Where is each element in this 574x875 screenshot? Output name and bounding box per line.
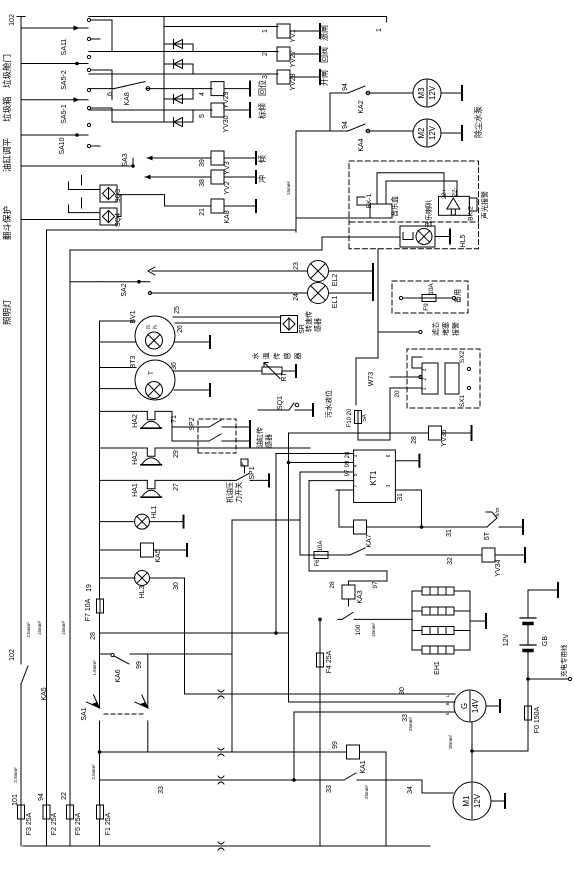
svg-text:BV1: BV1 [130,310,137,323]
svg-text:1: 1 [422,387,428,390]
svg-text:GB: GB [542,636,549,646]
lamp EL2 [308,261,329,282]
wire 100 feed to EH1 [411,619,413,621]
coil KA8 (21) [211,199,224,213]
fuse F3 25A on bus1 [18,805,25,819]
wire trunk 752 to left [99,751,346,753]
svg-text:W73: W73 [368,372,375,387]
svg-text:1.5mm²: 1.5mm² [92,660,97,676]
svg-text:转速传: 转速传 [304,311,313,332]
svg-text:YV35: YV35 [441,429,448,446]
wire 28 long line [100,632,289,634]
sx wires [390,376,422,378]
lamp EL1 [308,283,329,304]
switch 5T speed [483,526,487,528]
KT1 pin wires [309,480,354,482]
wire M1 to junction [471,751,473,782]
svg-text:F2 25A: F2 25A [51,812,58,835]
wire bus4 33/19/28 lamp rail [99,321,101,708]
svg-text:污水液位: 污水液位 [324,390,333,418]
sensor SR box [281,316,298,333]
diode D2 [164,64,193,74]
svg-text:27: 27 [173,483,180,491]
svg-text:15mm²: 15mm² [61,621,66,636]
svg-text:94: 94 [342,83,349,91]
svg-text:HL1: HL1 [151,505,158,518]
svg-text:HA2: HA2 [132,414,139,428]
contact KA1 wire 33 [340,779,344,781]
svg-text:KA2: KA2 [358,100,365,113]
wire 28 to KT1 pin1 [276,454,354,634]
svg-text:3: 3 [262,75,269,79]
svg-text:100: 100 [355,624,362,635]
svg-text:YV27: YV27 [290,50,297,67]
svg-text:开闸: 开闸 [320,70,329,86]
svg-text:3: 3 [386,484,392,487]
coil YV30 (5) [211,103,224,117]
svg-text:2.5mm²: 2.5mm² [91,764,96,780]
relay coil KA1 wire 99 [347,745,360,759]
generator pin wires [454,693,456,695]
svg-text:7: 7 [353,484,359,487]
svg-text:SA11: SA11 [61,39,68,56]
svg-text:SP1: SP1 [249,466,256,479]
svg-text:23: 23 [293,262,300,270]
svg-text:冲: 冲 [257,175,267,183]
svg-text:油缸传: 油缸传 [255,427,264,448]
wire bus1 102/101 (landscape top bus) [20,684,22,846]
svg-text:10A: 10A [428,283,435,295]
unit BK-1 music box [370,204,392,218]
svg-text:30: 30 [399,687,406,695]
ground BV1 lamp [174,341,210,343]
svg-text:12V: 12V [473,793,482,808]
svg-text:除尘水泵: 除尘水泵 [473,106,483,138]
svg-text:h: h [152,325,159,329]
alarm dashed box [349,161,479,249]
svg-text:4: 4 [353,464,359,467]
diode D3 [164,89,193,99]
wire 24 to lamp EL1 [150,292,307,294]
svg-text:涨闸: 涨闸 [319,25,329,41]
battery GB 12V [527,590,529,618]
wire line 5 from SA5-1 [89,109,212,111]
svg-text:BK-1: BK-1 [366,193,373,208]
svg-text:F4 25A: F4 25A [326,650,333,673]
wire 33 up to G [293,712,295,780]
svg-text:回位: 回位 [257,80,267,96]
svg-text:12V: 12V [503,633,510,646]
wire bus3 22 [69,250,71,846]
wire 33 branch [100,779,340,781]
svg-text:25mm²: 25mm² [408,717,413,732]
wire BV1 gauge feeds [100,320,136,322]
wire 99 vertical to YV35/KT1 [288,433,290,633]
gauge BV1 [135,316,175,356]
svg-text:SP2: SP2 [189,417,196,430]
svg-text:2: 2 [422,377,428,380]
motor M2 [413,119,441,147]
svg-text:29: 29 [173,450,180,458]
svg-text:KA8: KA8 [224,210,231,223]
fuse F5 25A on bus3 [67,805,74,819]
svg-text:99: 99 [345,460,351,467]
svg-text:RT: RT [281,372,288,382]
lamp box HL5 [400,226,435,247]
svg-text:14V: 14V [471,698,480,713]
svg-text:力开关: 力开关 [234,482,243,503]
wire 25/26 to speed sensor SR [173,316,281,318]
svg-text:F0 150A: F0 150A [534,706,541,733]
svg-text:39: 39 [199,159,206,167]
svg-text:G: G [460,703,469,709]
fuse F7 10A on bus4 [97,599,104,613]
svg-text:BK-2: BK-2 [468,206,475,221]
svg-text:滤芯: 滤芯 [431,322,440,336]
contact KA3 wire 100 [348,600,350,606]
svg-text:5T: 5T [484,531,491,540]
svg-text:照明灯: 照明灯 [2,299,12,325]
svg-text:KT1: KT1 [369,470,378,485]
svg-text:6: 6 [107,92,114,96]
svg-text:30: 30 [173,582,180,590]
wire 97 from F6 to KT1 pin3 [300,472,354,555]
wire HA2a horn feed 71 [100,410,148,412]
dashed connector box SX1/SX2 [407,349,480,408]
wire W73 terminal [392,376,418,378]
relay KT1 box [354,450,396,503]
svg-text:M3: M3 [417,87,426,99]
svg-text:34: 34 [407,786,414,794]
contact KA8 (wire 6) [89,88,110,90]
wire HA1 horn 27 [100,479,148,481]
wire bus2 94 [46,230,48,846]
svg-text:YV34: YV34 [495,559,502,576]
lamp HL1 [100,521,136,523]
svg-text:102: 102 [9,14,16,26]
svg-text:KA3: KA3 [357,590,364,603]
motor M3 [413,79,441,107]
wire bottom rail [23,845,430,847]
svg-text:33: 33 [158,786,165,794]
svg-text:28: 28 [90,632,97,640]
svg-text:HA1: HA1 [132,483,139,497]
switch SP1 oil pressure [241,459,248,466]
relay coil KA5 [100,549,141,551]
svg-text:26: 26 [177,325,184,333]
svg-text:SA5-1: SA5-1 [61,104,68,124]
generator G 14V [454,690,486,722]
wire HA2b horn 29 [100,447,148,449]
svg-text:31: 31 [397,493,404,501]
wire 99 drop to SA1 pole2 [147,654,149,708]
wire supply line 1 top right hook [386,17,388,23]
fuse F0 150A [527,679,529,751]
wire pole2 leg joins trunk [147,721,149,752]
svg-text:20: 20 [394,390,401,398]
wires inside alarm box [377,173,444,204]
svg-text:28: 28 [329,581,336,589]
svg-text:1: 1 [376,28,383,32]
svg-text:感: 感 [283,353,292,360]
svg-text:BT3: BT3 [130,355,137,368]
svg-text:38: 38 [199,179,206,187]
svg-text:31: 31 [446,529,453,537]
fuse F10 5A [355,411,362,424]
diode D1 [164,44,193,52]
svg-text:传: 传 [272,353,281,360]
diode D4 [164,110,193,122]
svg-text:感器: 感器 [313,318,322,332]
svg-text:SX2: SX2 [459,350,466,363]
svg-text:油缸调平: 油缸调平 [2,137,12,172]
svg-text:YV28: YV28 [290,73,297,90]
svg-text:EL2: EL2 [332,274,339,287]
svg-text:4: 4 [199,92,206,96]
svg-text:EL1: EL1 [332,296,339,309]
svg-text:12V: 12V [428,85,437,100]
svg-text:F6: F6 [315,559,321,567]
contact KA4 wire 94 [330,130,344,132]
wire from 97 net down to trunk [232,519,300,521]
svg-text:1: 1 [262,29,269,33]
wire 31 to 5T [367,526,483,528]
KT1 pin6 ground [395,460,419,462]
generator ground [486,705,500,707]
svg-text:器: 器 [294,353,302,360]
svg-text:声光报警: 声光报警 [480,191,489,219]
connector housing rects [422,363,438,394]
svg-text:YV2: YV2 [224,181,231,194]
svg-text:16mm²: 16mm² [371,623,376,638]
svg-text:6: 6 [386,454,392,457]
svg-text:5: 5 [199,114,206,118]
wire F4 25A branch [319,619,321,846]
relay coil KA7 [354,520,367,534]
fuse F6 10A wire 97 [300,554,313,556]
resistor RT water temp sensor [262,367,282,374]
svg-text:SA10: SA10 [59,137,66,154]
relay coil KA3 [342,585,355,599]
svg-text:5A: 5A [362,414,368,421]
horn HA2 [147,411,155,419]
svg-text:YV30: YV30 [223,115,230,132]
svg-text:22+: 22+ [442,188,448,199]
svg-text:M1: M1 [462,795,471,807]
wire sewage level SQ1 [258,409,285,411]
svg-text:回阀: 回阀 [320,47,329,63]
svg-text:HL3: HL3 [139,585,146,598]
wire line 3 [89,73,278,75]
lever symbol SQ3 [69,182,101,190]
svg-text:3: 3 [422,368,428,371]
wire filter alarm terminal [378,331,418,333]
svg-text:音乐盒: 音乐盒 [390,196,399,217]
svg-text:15mm²: 15mm² [286,181,291,196]
svg-text:感器: 感器 [264,434,273,448]
wire KA2/KA4 rail [329,93,331,131]
svg-text:机油压: 机油压 [225,482,234,503]
svg-text:25: 25 [174,306,181,314]
svg-text:F5 25A: F5 25A [75,812,82,835]
wire line to coil 1 [89,16,387,18]
svg-text:F9: F9 [423,303,430,311]
wire lamp rail down-left [99,281,101,283]
svg-text:12V: 12V [428,125,437,140]
fuse box F9 dashed [392,281,468,313]
svg-text:32: 32 [447,557,454,565]
wire line 2 [89,51,278,53]
fuse F2 25A on bus2 [43,805,50,819]
svg-text:垃圾舱门: 垃圾舱门 [2,54,12,88]
diode rail [163,17,165,123]
wire to YV35 coil 28 [289,432,429,434]
wire trunk down from lines to F10 [69,249,71,251]
svg-text:101: 101 [12,794,19,806]
svg-text:SA1: SA1 [81,707,88,720]
svg-text:KA8: KA8 [124,92,131,105]
svg-text:T: T [148,371,155,375]
svg-text:F3 25A: F3 25A [26,812,33,835]
svg-text:HL5: HL5 [460,234,467,247]
svg-text:KA7: KA7 [366,534,373,547]
svg-text:温: 温 [262,353,271,360]
svg-text:充电专用线: 充电专用线 [559,644,568,677]
wire 36 to RT [173,370,262,372]
wire 23 to lamp EL2 [152,270,307,272]
sensors SQ3/SQ4 and levers [100,185,117,202]
ground bar for EL1/EL2 [329,270,374,272]
svg-text:SX1: SX1 [459,394,466,407]
svg-text:F1 25A: F1 25A [105,812,112,835]
svg-text:翻斗保护: 翻斗保护 [2,206,12,240]
wire 28-branch down to G [289,633,456,702]
contact KA5 on bus1 [21,666,28,684]
svg-text:堵塞: 堵塞 [441,322,450,336]
svg-text:SQ1: SQ1 [277,396,284,410]
svg-text:5: 5 [353,473,359,476]
svg-text:94: 94 [38,793,45,801]
coil YV3 (39) [211,151,224,165]
svg-text:YV3: YV3 [224,161,231,174]
svg-text:M2: M2 [417,127,426,139]
svg-text:F7 10A: F7 10A [85,598,92,621]
svg-text:KA1: KA1 [360,760,367,773]
svg-text:33: 33 [326,785,333,793]
svg-text:B: B [445,702,450,705]
coil YV2 (38) [211,170,224,184]
wire BT3 feeds [100,367,137,369]
svg-text:15mm²: 15mm² [37,621,42,636]
lever symbol SQ4 [69,205,101,213]
wire main junction [471,722,473,751]
svg-text:102: 102 [9,649,16,661]
svg-text:10A: 10A [318,541,324,552]
svg-text:KA5: KA5 [155,549,162,562]
svg-text:97: 97 [372,581,379,589]
wire 97 loop to KA3 [309,571,387,585]
heater EH1 [411,591,413,650]
wire splice marks [218,690,224,698]
wire to F10/SX [356,249,378,405]
svg-text:垃圾箱: 垃圾箱 [2,96,12,122]
svg-text:SA3: SA3 [122,153,129,166]
svg-text:36: 36 [171,362,178,370]
svg-text:音乐喇叭: 音乐喇叭 [424,200,433,228]
svg-text:水: 水 [251,353,260,360]
wire lighting feed from bus3 [70,281,150,283]
EH1 ground [470,620,486,622]
wires SQ3/SQ4 [21,165,133,167]
coil YV35 [429,426,442,440]
svg-text:1: 1 [353,454,359,457]
svg-text:99: 99 [332,741,339,749]
SX terminals [467,367,470,370]
svg-text:97: 97 [345,469,351,476]
wire rail through SA1 [99,721,101,752]
svg-text:22-: 22- [453,188,459,197]
wire taps from bus1 to selector switches [21,27,88,29]
svg-text:99: 99 [136,661,143,669]
wire 99 to KT1/YV35 net [148,653,232,655]
svg-text:备用: 备用 [453,289,462,303]
svg-text:EH1: EH1 [434,661,441,675]
svg-text:22: 22 [61,792,68,800]
KT1 pin3 wire 31 [395,490,421,527]
svg-text:KA4: KA4 [358,138,365,151]
svg-text:28: 28 [411,436,418,444]
unit BK-2 horn [439,196,470,215]
contact KA2 wire 94 [330,92,344,94]
svg-text:25mm²: 25mm² [364,785,369,800]
svg-text:KA6: KA6 [115,669,122,682]
fuse F1 25A on bus4 [97,805,104,819]
svg-text:k/m: k/m [495,507,501,516]
svg-text:2.5mm²: 2.5mm² [26,622,31,638]
wire 94 route to KA2/KA4 [47,131,331,230]
svg-text:n: n [145,325,152,329]
switch SP2 dashed box [198,419,236,453]
svg-text:2.5mm²: 2.5mm² [13,767,18,783]
svg-text:SA2: SA2 [121,283,128,296]
svg-text:28: 28 [345,451,351,458]
wire 22 route to HL5 [70,237,400,250]
gauge BT3 [135,360,175,400]
svg-text:SR: SR [299,324,306,334]
svg-text:倾: 倾 [257,155,267,163]
svg-text:HA2: HA2 [132,451,139,465]
svg-text:94: 94 [342,121,349,129]
motor M1 starter [453,782,491,820]
svg-text:SA5-2: SA5-2 [61,70,68,90]
svg-text:24: 24 [293,293,300,301]
switch KA6 wire 99 [100,653,112,655]
coil YV34 [482,548,495,562]
wire battery minus to charge terminal [528,652,568,679]
svg-text:2: 2 [262,52,269,56]
svg-text:F10 20: F10 20 [347,408,353,427]
contact KA7 [346,554,350,556]
svg-text:35mm²: 35mm² [448,735,453,750]
lamp HL3 wire 30 [100,577,136,579]
svg-text:19: 19 [86,584,93,592]
svg-text:报警: 报警 [451,322,460,336]
svg-text:标倾: 标倾 [257,103,267,119]
svg-text:21: 21 [199,208,206,216]
